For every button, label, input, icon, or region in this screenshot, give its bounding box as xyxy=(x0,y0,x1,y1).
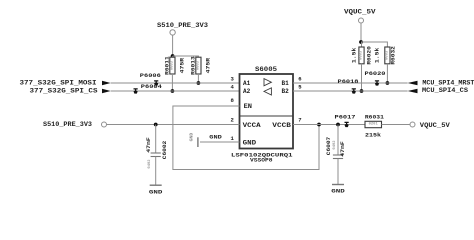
svg-text:377_S32G_SPI_MOSI: 377_S32G_SPI_MOSI xyxy=(20,79,97,86)
power port VQUC_5V (right) xyxy=(410,122,450,129)
svg-text:P6018: P6018 xyxy=(338,78,360,85)
node: C6002 tap xyxy=(154,123,158,127)
ground (C6002) xyxy=(149,185,163,195)
svg-text:0603: 0603 xyxy=(170,60,174,70)
pin B1 (6) xyxy=(282,75,303,87)
svg-text:EN: EN xyxy=(244,103,253,110)
wire: R6013 bottom lead xyxy=(197,74,199,83)
port 377_S32G_SPI_CS xyxy=(30,87,111,94)
svg-text:VQUC_5V: VQUC_5V xyxy=(420,122,450,129)
svg-text:1.5k: 1.5k xyxy=(351,47,358,63)
node: 3V3 junction xyxy=(171,54,175,58)
wire: B2 line (right) xyxy=(293,90,408,92)
wire: VCCA line xyxy=(107,124,240,126)
wire: GND pin 1 xyxy=(200,141,240,143)
resistor R6011 475R xyxy=(164,56,186,75)
IC S6005 LSF0102 level-shifter body xyxy=(240,66,294,149)
node: 5V junction xyxy=(359,40,363,44)
svg-text:0603: 0603 xyxy=(196,60,200,70)
svg-text:0603: 0603 xyxy=(385,50,389,60)
pin A1 (3) xyxy=(230,76,250,88)
svg-text:4: 4 xyxy=(230,84,234,91)
pin VCCA (2) xyxy=(230,117,260,129)
svg-text:6: 6 xyxy=(298,75,302,82)
svg-text:475R: 475R xyxy=(178,57,185,73)
resistor R6032 1.5k xyxy=(374,45,397,64)
svg-text:8: 8 xyxy=(230,97,234,104)
svg-text:215k: 215k xyxy=(365,131,382,138)
svg-text:MCU_SPI4_CS: MCU_SPI4_CS xyxy=(422,87,468,94)
testpoint P6006 xyxy=(140,72,162,86)
wire: R6020 bottom lead xyxy=(361,64,363,91)
testpoint P6004 xyxy=(134,83,163,94)
node: loop joins VCCB xyxy=(317,123,321,127)
wire: MOSI line (A side) xyxy=(111,82,240,84)
svg-text:VCCA: VCCA xyxy=(243,122,261,129)
svg-text:P6006: P6006 xyxy=(140,72,162,79)
node: R6020 to CS line xyxy=(360,89,364,93)
svg-text:S6005: S6005 xyxy=(255,66,277,73)
svg-text:377_S32G_SPI_CS: 377_S32G_SPI_CS xyxy=(30,87,98,94)
svg-text:A1: A1 xyxy=(243,80,250,87)
svg-text:VSSOP8: VSSOP8 xyxy=(250,156,273,163)
svg-text:R6032: R6032 xyxy=(390,45,397,64)
svg-text:GND: GND xyxy=(331,188,345,195)
svg-text:47nF: 47nF xyxy=(145,137,152,153)
wire: R6011 bottom lead xyxy=(171,74,173,91)
port MCU_SPI4_MRST xyxy=(408,79,474,86)
svg-text:5: 5 xyxy=(298,83,302,90)
node: R6013 to MOSI line xyxy=(197,81,201,85)
svg-text:MCU_SPI4_MRST: MCU_SPI4_MRST xyxy=(422,79,474,86)
svg-text:0402: 0402 xyxy=(333,140,337,150)
pin GND (1) xyxy=(230,135,256,147)
svg-text:P6017: P6017 xyxy=(335,113,356,120)
wire: link to R6032 top xyxy=(361,42,387,47)
svg-text:7: 7 xyxy=(298,117,301,124)
svg-text:2: 2 xyxy=(230,117,234,124)
svg-text:1.5k: 1.5k xyxy=(374,47,381,63)
svg-text:GND: GND xyxy=(243,139,257,146)
svg-text:3: 3 xyxy=(230,76,234,83)
wire: R6020 top stub xyxy=(361,42,363,47)
wire: R6031 to VQUC_5V xyxy=(382,124,411,126)
wire: VCCB line xyxy=(293,124,365,126)
wire: 3V3 stem down xyxy=(172,35,174,56)
wire: CS line (A side) xyxy=(111,90,240,92)
svg-text:VCCB: VCCB xyxy=(272,122,291,129)
ground (C6007) xyxy=(331,185,345,195)
wire: 5V stem xyxy=(360,23,362,42)
testpoint P6018 xyxy=(338,78,360,94)
pin B2 (5) xyxy=(282,83,303,95)
buffer triangle down xyxy=(264,88,271,95)
power port S510_PRE_3V3 (VCCA) xyxy=(43,121,107,128)
ground (pin 1, left-pointing) xyxy=(189,133,198,147)
svg-text:475R: 475R xyxy=(204,57,211,73)
svg-text:A2: A2 xyxy=(243,88,250,95)
node: C6007 tap xyxy=(336,123,340,127)
svg-text:47nF: 47nF xyxy=(339,141,346,157)
pin A2 (4) xyxy=(230,84,250,96)
svg-text:GND: GND xyxy=(189,133,195,142)
capacitor C6007 47nF xyxy=(325,125,346,185)
pin VCCB (7) xyxy=(272,117,301,129)
resistor R6031 215k xyxy=(365,113,385,138)
node: R6032 to MRST line xyxy=(386,81,390,85)
wire: link to R6013 top xyxy=(173,56,199,57)
svg-text:S510_PRE_3V3: S510_PRE_3V3 xyxy=(157,22,208,29)
svg-text:R6031: R6031 xyxy=(365,113,385,120)
svg-text:VQUC_5V: VQUC_5V xyxy=(344,9,376,16)
pin EN (8) xyxy=(230,97,252,110)
power port S510_PRE_3V3 (top) xyxy=(157,22,208,35)
svg-text:0603: 0603 xyxy=(360,50,364,60)
buffer triangle up xyxy=(264,79,271,86)
svg-text:P6004: P6004 xyxy=(141,83,163,90)
power port VQUC_5V (top right) xyxy=(344,9,376,24)
svg-text:1: 1 xyxy=(230,135,234,142)
wire: B1 line (right) xyxy=(293,82,408,84)
wire: R6032 bottom lead xyxy=(386,64,388,83)
svg-text:B2: B2 xyxy=(282,88,289,95)
wire: EN to VCCB loop xyxy=(173,106,319,170)
resistor R6020 1.5k xyxy=(351,45,373,64)
testpoint P6017 xyxy=(335,113,356,127)
svg-text:S510_PRE_3V3: S510_PRE_3V3 xyxy=(43,121,92,128)
svg-text:C6007: C6007 xyxy=(325,137,332,156)
svg-text:0201: 0201 xyxy=(369,123,379,127)
resistor R6013 475R xyxy=(190,56,212,75)
svg-text:B1: B1 xyxy=(282,80,289,87)
svg-text:C6002: C6002 xyxy=(161,140,168,159)
node: R6011 to CS line xyxy=(171,89,175,93)
svg-text:GND: GND xyxy=(149,188,163,195)
port 377_S32G_SPI_MOSI xyxy=(20,79,111,86)
svg-text:R6020: R6020 xyxy=(365,45,372,64)
svg-text:P6020: P6020 xyxy=(365,70,387,77)
testpoint P6020 xyxy=(365,70,387,86)
capacitor C6002 47nF xyxy=(145,125,168,186)
port MCU_SPI4_CS xyxy=(408,87,469,94)
svg-text:GND: GND xyxy=(209,133,222,140)
wire: R6011 top stub xyxy=(171,56,173,57)
svg-text:0402: 0402 xyxy=(148,159,152,169)
